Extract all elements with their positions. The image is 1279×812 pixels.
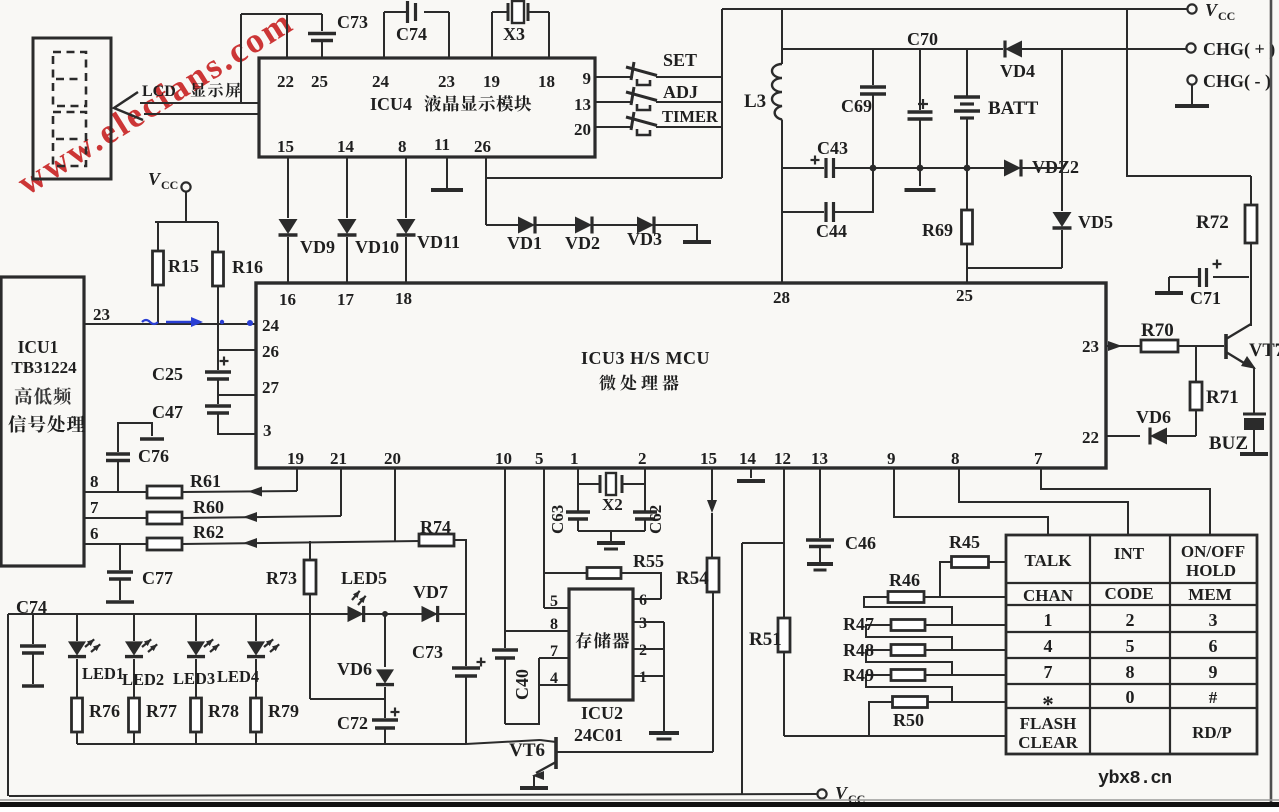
diode VD1: [507, 217, 542, 254]
svg-text:20: 20: [574, 120, 591, 139]
svg-text:R62: R62: [193, 522, 224, 542]
wire pin13: [819, 468, 821, 538]
wire pin21: [340, 468, 342, 516]
svg-text:7: 7: [1044, 662, 1053, 682]
svg-text:C74: C74: [396, 24, 427, 44]
wire icu2 pin1: [633, 675, 664, 677]
capacitor C69: [841, 49, 886, 168]
wire pin10: [504, 468, 506, 648]
label ICU1: [18, 337, 59, 357]
diode VD11: [397, 219, 416, 283]
svg-text:RD/P: RD/P: [1192, 723, 1232, 742]
ICU2 pin 2 label: [639, 642, 647, 659]
wire: [1021, 167, 1062, 169]
diode VD3: [627, 217, 662, 250]
resistor R61: [84, 471, 297, 498]
ICU4 pin 14 label: [337, 137, 355, 156]
svg-text:INT: INT: [1114, 544, 1145, 563]
ICU4 pin 15 label: [277, 137, 294, 156]
key FLASH CLEAR: [1018, 714, 1078, 752]
svg-text:VD3: VD3: [627, 229, 662, 249]
label VD11: [417, 232, 460, 252]
ICU4 pin 25 label: [311, 72, 328, 91]
svg-text:3: 3: [639, 615, 647, 632]
svg-text:ON/OFF: ON/OFF: [1181, 542, 1245, 561]
svg-text:R60: R60: [193, 497, 224, 517]
svg-text:L3: L3: [744, 91, 766, 112]
switch ADJ: [595, 82, 722, 110]
svg-text:TIMER: TIMER: [662, 107, 719, 126]
wire icu2 pin7: [539, 657, 569, 659]
svg-text:23: 23: [1082, 337, 1099, 356]
svg-text:5: 5: [1126, 636, 1135, 656]
svg-text:27: 27: [262, 378, 280, 397]
capacitor C74: [20, 614, 46, 686]
svg-text:20: 20: [384, 449, 401, 468]
svg-text:R15: R15: [168, 256, 199, 276]
key ON/OFF HOLD: [1181, 542, 1245, 580]
svg-text:R79: R79: [268, 701, 299, 721]
ICU3 pin 12 label: [774, 449, 791, 468]
svg-text:X2: X2: [602, 495, 623, 514]
svg-text:LED1: LED1: [82, 664, 124, 683]
capacitor C74: [384, 1, 449, 44]
zener VDZ2: [1004, 157, 1079, 177]
svg-text:CODE: CODE: [1104, 584, 1153, 603]
ICU2 pin 6 label: [639, 592, 647, 609]
inductor L3: [744, 9, 782, 283]
svg-text:R45: R45: [949, 532, 980, 552]
wire: [287, 157, 289, 218]
svg-text:2: 2: [638, 449, 647, 468]
svg-text:R76: R76: [89, 701, 120, 721]
svg-text:C62: C62: [646, 505, 665, 534]
ICU3 pin 18 label: [395, 289, 412, 308]
key CHAN: [1023, 586, 1074, 605]
key CODE: [1104, 584, 1153, 603]
wire pin7b: [1041, 468, 1210, 535]
switch SET: [595, 50, 722, 85]
resistor R77: [129, 698, 178, 744]
ICU4 pin 9 label: [583, 69, 592, 88]
svg-text:C40: C40: [512, 669, 532, 700]
svg-text:6: 6: [90, 524, 99, 543]
terminal Vcc bottom: [817, 783, 865, 806]
wire pin12: [783, 468, 785, 543]
ICU3 pin 20 label: [384, 449, 401, 468]
svg-text:VT6: VT6: [509, 740, 545, 761]
key 6: [1209, 636, 1218, 656]
svg-text:R46: R46: [889, 570, 920, 590]
battery BATT: [954, 49, 1039, 168]
wire pin26: [486, 157, 722, 178]
node: [870, 165, 877, 172]
svg-text:8: 8: [951, 449, 960, 468]
wire pin11: [446, 157, 448, 188]
svg-text:2: 2: [1126, 610, 1135, 630]
wire left drop: [7, 614, 9, 796]
svg-text:1: 1: [570, 449, 579, 468]
ICU3 pin 3 label: [263, 421, 272, 440]
svg-text:19: 19: [287, 449, 304, 468]
capacitor C73b: [412, 614, 486, 744]
label ICU2: [581, 703, 623, 723]
diode VD6: [1106, 407, 1196, 445]
svg-text:24C01: 24C01: [574, 725, 623, 745]
svg-text:LED3: LED3: [173, 669, 215, 688]
crystal X3: [492, 1, 549, 44]
wire: [405, 157, 407, 218]
LCD digit segment upper: [53, 52, 86, 106]
ICU3 pin 19 label: [287, 449, 304, 468]
svg-text:16: 16: [279, 290, 296, 309]
wire: [742, 543, 784, 794]
ground: [905, 188, 936, 192]
svg-text:R48: R48: [843, 640, 874, 660]
resistor R55: [544, 551, 664, 599]
capacitor C25: [152, 350, 231, 395]
svg-text:9: 9: [887, 449, 896, 468]
capacitor C71: [1169, 260, 1249, 309]
svg-text:14: 14: [337, 137, 355, 156]
ICU1 pin 8 label: [90, 472, 99, 491]
svg-text:9: 9: [1209, 662, 1218, 682]
wire: [505, 658, 539, 724]
LED LED4: [247, 614, 279, 698]
diode VD7: [413, 582, 466, 622]
ICU3 pin 2 label: [638, 449, 647, 468]
wire: [1061, 49, 1063, 168]
label ICU4 液晶显示模块: [370, 94, 531, 114]
svg-text:X3: X3: [503, 24, 525, 44]
ICU4 pin 19 label: [483, 72, 500, 91]
wire pin25 upper: [321, 14, 323, 31]
svg-text:2: 2: [639, 642, 647, 659]
ICU1 pin 23 label: [93, 305, 110, 324]
svg-text:8: 8: [398, 137, 407, 156]
resistor R47: [843, 614, 1006, 650]
IC ICU1 box: [1, 277, 84, 566]
resistor R62: [84, 522, 420, 550]
resistor R48: [843, 640, 1006, 675]
svg-text:ICU4: ICU4: [370, 94, 412, 114]
ICU3 pin 24 label: [262, 316, 280, 335]
ground: [1155, 291, 1183, 295]
resistor R74: [419, 517, 466, 614]
wire switch bus: [721, 9, 723, 178]
svg-text:LCD: LCD: [142, 83, 176, 100]
svg-text:5: 5: [550, 593, 558, 610]
capacitor C43: [782, 138, 871, 178]
svg-text:ICU2: ICU2: [581, 703, 623, 723]
ICU4 pin 24 label: [372, 72, 390, 91]
svg-text:LED2: LED2: [122, 670, 164, 689]
svg-text:R73: R73: [266, 568, 297, 588]
LED LED3: [187, 614, 219, 698]
ICU3 pin 14 label: [739, 449, 757, 468]
svg-text:C76: C76: [138, 446, 169, 466]
wire: [592, 224, 637, 226]
svg-text:7: 7: [550, 643, 558, 660]
ground: [1175, 104, 1209, 108]
svg-text:C43: C43: [817, 138, 848, 158]
wire charge rail: [782, 48, 1003, 50]
svg-text:R78: R78: [208, 701, 239, 721]
svg-text:R49: R49: [843, 665, 874, 685]
ground: [683, 240, 711, 244]
svg-text:V: V: [148, 169, 162, 189]
ground: [649, 733, 679, 739]
svg-text:8: 8: [550, 616, 558, 633]
svg-text:1: 1: [639, 669, 647, 686]
ICU3 pin 7 label: [1034, 449, 1043, 468]
svg-text:TALK: TALK: [1025, 551, 1073, 570]
svg-text:11: 11: [434, 135, 450, 154]
svg-text:TB31224: TB31224: [11, 358, 77, 377]
svg-text:ICU1: ICU1: [18, 337, 59, 357]
capacitor C73: [308, 12, 368, 58]
wire pin18: [548, 12, 550, 58]
wire Vcc bottom: [9, 794, 818, 796]
wire pin2: [644, 468, 646, 512]
ICU3 pin 27 label: [262, 378, 280, 397]
resistor R72: [1196, 176, 1257, 326]
wire icu2 pin3: [633, 621, 664, 623]
ICU4 pin 23 label: [438, 72, 455, 91]
resistor R16: [213, 222, 264, 324]
capacitor C76: [106, 423, 169, 492]
ICU4 pin 18 label: [538, 72, 555, 91]
wire: [366, 613, 422, 615]
svg-text:13: 13: [574, 95, 591, 114]
wire: [663, 622, 665, 731]
svg-text:24: 24: [372, 72, 390, 91]
wire led bottom rail: [77, 743, 466, 745]
ICU4 pin 26 label: [474, 137, 491, 156]
svg-text:VD5: VD5: [1078, 212, 1113, 232]
wire pin23: [448, 12, 450, 58]
resistor R46: [864, 570, 1006, 625]
label LED4: [217, 667, 259, 686]
svg-text:CHG( - ): CHG( - ): [1203, 71, 1271, 92]
LED LED1: [68, 614, 100, 698]
ICU2 pin 8 label: [550, 616, 558, 633]
svg-text:#: #: [1209, 688, 1218, 707]
svg-text:VD4: VD4: [1000, 61, 1035, 81]
label LED2: [122, 670, 164, 689]
svg-text:28: 28: [773, 288, 790, 307]
label VD9: [300, 237, 335, 257]
ICU3 pin 21 label: [330, 449, 347, 468]
annotation blue mark: [142, 317, 253, 327]
LCD display box: [33, 38, 111, 179]
ICU3 pin 28 label: [773, 288, 790, 307]
svg-text:MEM: MEM: [1188, 585, 1231, 604]
svg-text:8: 8: [1126, 662, 1135, 682]
diode VD5: [1053, 168, 1114, 268]
svg-text:7: 7: [90, 498, 99, 517]
keypad table grid: [1006, 535, 1257, 754]
svg-text:R55: R55: [633, 551, 664, 571]
resistor R69: [922, 168, 973, 268]
wire pin5: [543, 468, 545, 608]
svg-text:LED5: LED5: [341, 568, 387, 588]
key RD/P: [1192, 723, 1232, 742]
diode VD9: [279, 219, 298, 283]
ICU3 pin 10 label: [495, 449, 512, 468]
wire pin26 stub: [218, 324, 256, 350]
svg-text:3: 3: [1209, 610, 1218, 630]
key 8: [1126, 662, 1135, 682]
LCD digit segment lower: [53, 112, 86, 166]
resistor R76: [72, 698, 121, 744]
svg-text:ADJ: ADJ: [663, 82, 698, 102]
svg-text:25: 25: [956, 286, 973, 305]
label TB31224: [11, 358, 77, 377]
svg-text:R51: R51: [749, 629, 782, 650]
svg-text:HOLD: HOLD: [1186, 561, 1236, 580]
svg-text:18: 18: [538, 72, 555, 91]
capacitor C63: [548, 505, 590, 534]
ICU2 pin 1 label: [639, 669, 647, 686]
switch TIMER: [595, 107, 722, 135]
wire: [873, 167, 918, 169]
wire pin19: [491, 12, 493, 58]
capacitor C72: [337, 708, 400, 745]
LED LED5: [310, 568, 387, 622]
svg-text:0: 0: [1126, 687, 1135, 707]
terminal CHG(-): [1187, 71, 1271, 104]
ICU3 pin 15 label: [700, 449, 717, 468]
wire: [346, 157, 348, 218]
svg-text:C25: C25: [152, 364, 183, 384]
key INT: [1114, 544, 1145, 563]
resistor R73: [266, 541, 316, 699]
wire: [967, 268, 1062, 283]
ICU1 pin 6 label: [90, 524, 99, 543]
transistor VT7: [1226, 277, 1279, 414]
resistor R78: [191, 698, 240, 744]
svg-text:C70: C70: [907, 29, 938, 49]
ground: [431, 188, 463, 192]
wire: [967, 167, 1005, 169]
wire pin24: [383, 12, 385, 58]
wire: [1127, 9, 1251, 176]
svg-text:VD11: VD11: [417, 232, 460, 252]
node: [382, 611, 388, 617]
node: [917, 165, 924, 172]
wire: [155, 221, 218, 223]
capacitor C46: [806, 533, 876, 562]
wire: [1020, 48, 1186, 50]
IC ICU4 box: [259, 58, 595, 157]
wire: [578, 531, 645, 541]
svg-text:6: 6: [639, 592, 647, 609]
key *: [1042, 692, 1054, 717]
wire: [240, 14, 242, 103]
capacitor C44: [782, 168, 873, 241]
diode VD4: [1000, 41, 1035, 82]
wire pin15: [707, 468, 717, 558]
ICU3 pin 17 label: [337, 290, 355, 309]
wire icu2 pin2: [633, 648, 664, 650]
wire led rail: [8, 613, 466, 615]
svg-text:CHG( + ): CHG( + ): [1203, 39, 1275, 60]
ICU3 pin 13 label: [811, 449, 828, 468]
svg-text:VD1: VD1: [507, 233, 542, 253]
wire pin20: [394, 468, 396, 541]
svg-text:14: 14: [739, 449, 757, 468]
transistor VT6: [509, 737, 713, 788]
label LED3: [173, 669, 215, 688]
svg-text:VD2: VD2: [565, 233, 600, 253]
capacitor C47: [152, 395, 256, 434]
ICU4 pin 11 label: [434, 135, 450, 154]
key 5: [1126, 636, 1135, 656]
svg-text:R47: R47: [843, 614, 874, 634]
svg-text:4: 4: [1044, 636, 1053, 656]
svg-text:C77: C77: [142, 568, 173, 588]
key 7: [1044, 662, 1053, 682]
wire: [310, 698, 385, 700]
label 24C01: [574, 725, 623, 745]
ICU2 pin 5 label: [550, 593, 558, 610]
svg-text:7: 7: [1034, 449, 1043, 468]
wire pin9: [894, 468, 1048, 535]
ICU4 pin 20 label: [574, 120, 591, 139]
key TALK: [1025, 551, 1073, 570]
svg-text:19: 19: [483, 72, 500, 91]
svg-text:C71: C71: [1190, 288, 1221, 308]
label VD10: [355, 237, 399, 257]
ground: [140, 437, 164, 440]
label LCD 显示屏: [142, 83, 241, 100]
svg-text:R61: R61: [190, 471, 221, 491]
watermark www.elecfans.com: [10, 1, 301, 203]
wire: [920, 167, 965, 169]
wire pin22: [241, 14, 287, 58]
wire Vcc rail: [722, 8, 1187, 10]
wire icu2 pin5: [544, 607, 569, 609]
svg-text:26: 26: [474, 137, 491, 156]
ICU2 pin 3 label: [639, 615, 647, 632]
IC ICU2 box: [569, 589, 633, 700]
resistor R49: [843, 665, 1006, 702]
svg-text:5: 5: [535, 449, 544, 468]
label 高低频: [15, 387, 71, 405]
ground: [807, 564, 833, 570]
resistor R71: [1190, 346, 1239, 436]
wire flash row: [784, 735, 1006, 737]
key 3: [1209, 610, 1218, 630]
capacitor C62: [633, 505, 665, 534]
svg-text:C69: C69: [841, 96, 872, 116]
svg-text:CC: CC: [161, 178, 178, 192]
svg-text:VD10: VD10: [355, 237, 399, 257]
svg-text:15: 15: [277, 137, 294, 156]
ground: [737, 479, 765, 483]
svg-text:VT7: VT7: [1249, 341, 1279, 361]
ground: [597, 543, 625, 549]
ICU2 pin 7 label: [550, 643, 558, 660]
buzzer BUZ: [1209, 414, 1268, 454]
svg-text:6: 6: [1209, 636, 1218, 656]
svg-text:4: 4: [550, 670, 558, 687]
diode VD2: [565, 217, 600, 254]
wire pin14: [750, 468, 752, 478]
svg-text:SET: SET: [663, 50, 697, 70]
ICU4 pin 13 label: [574, 95, 591, 114]
